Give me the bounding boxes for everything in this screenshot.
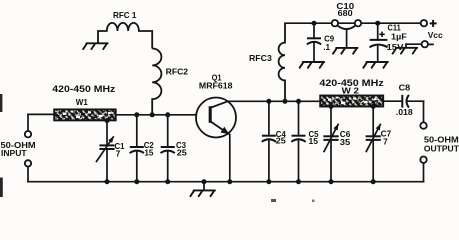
node ground rail / C2 xyxy=(134,179,139,184)
stripline W1 xyxy=(54,109,115,120)
capacitor C1 (variable, 7pF) xyxy=(96,136,115,162)
node C5 junction xyxy=(296,99,301,104)
transistor Q1 MRF618 xyxy=(196,98,236,138)
ground at Vcc - xyxy=(393,48,418,54)
node ground rail / C3 xyxy=(165,179,170,184)
svg-text:680: 680 xyxy=(338,9,353,18)
ground at C11 xyxy=(363,62,388,68)
svg-text:7: 7 xyxy=(383,138,388,147)
wire input to W1 xyxy=(28,113,55,115)
svg-text:INPUT: INPUT xyxy=(1,148,27,158)
stripline W2 xyxy=(320,96,383,107)
wire input top vertical xyxy=(27,114,29,130)
wire C6 bottom xyxy=(330,140,332,182)
wire output top vertical xyxy=(423,101,425,122)
wire C11 bottom xyxy=(377,47,379,63)
wire C4 bottom xyxy=(268,141,270,182)
node ground rail / emitter xyxy=(227,179,232,184)
node C3 junction xyxy=(165,112,170,117)
svg-text:.018: .018 xyxy=(396,108,413,117)
svg-text:25: 25 xyxy=(276,137,286,146)
ground at RFC1 xyxy=(83,43,108,49)
svg-text:C8: C8 xyxy=(399,84,411,93)
output terminal top xyxy=(420,122,426,128)
terminal Vcc - xyxy=(422,41,428,47)
wire base rail xyxy=(116,114,197,116)
wire C6 top xyxy=(330,106,332,136)
node C7 junction xyxy=(371,104,376,109)
svg-text:W1: W1 xyxy=(76,97,88,107)
wire C5 top xyxy=(298,101,300,135)
capacitor C3 (25pF) xyxy=(161,147,175,153)
wire Vcc- ground stub xyxy=(405,44,407,47)
wire C11 top xyxy=(377,23,379,40)
svg-text:.1: .1 xyxy=(323,43,330,52)
node RFC2 junction xyxy=(150,112,155,117)
terminal Vcc + xyxy=(421,20,427,26)
wire C3 top xyxy=(167,115,169,147)
wire C7 top xyxy=(372,106,374,136)
C11 plus sign xyxy=(379,32,384,37)
node C2 junction xyxy=(134,112,139,117)
node W1/C1 junction xyxy=(105,118,110,123)
wire ground stub xyxy=(203,182,205,191)
wire top rail right segment xyxy=(361,22,421,24)
node ground rail / ground stub xyxy=(202,179,207,184)
wire C1 bottom xyxy=(106,149,108,182)
svg-text:Vcc: Vcc xyxy=(428,30,443,40)
svg-text:25: 25 xyxy=(177,149,187,158)
svg-text:MRF618: MRF618 xyxy=(199,82,233,91)
node C9 junction xyxy=(312,21,317,26)
wire Vcc- to ground xyxy=(406,43,422,45)
svg-text:15: 15 xyxy=(309,137,319,146)
svg-text:15: 15 xyxy=(144,149,153,158)
wire input bottom vertical xyxy=(27,167,29,182)
wire C9 bottom xyxy=(313,43,315,62)
svg-text:RFC3: RFC3 xyxy=(249,53,272,63)
node ground rail / C4 xyxy=(266,179,271,184)
scan artifact left edge xyxy=(0,94,2,112)
ground at C9 xyxy=(300,62,325,68)
svg-text:7: 7 xyxy=(116,149,121,158)
capacitor C8 (.018uF) xyxy=(402,95,409,108)
node ground rail / C5 xyxy=(296,179,301,184)
capacitor C5 (15pF) xyxy=(291,136,305,142)
capacitor C4 (25pF) xyxy=(262,136,276,142)
node RFC3 junction xyxy=(283,99,288,104)
wire C8 to output xyxy=(407,100,423,102)
inductor RFC3 xyxy=(279,23,285,101)
wire C2 bottom xyxy=(136,152,138,182)
wire top rail middle segment xyxy=(338,22,355,24)
plus sign at Vcc xyxy=(430,20,437,27)
svg-text:420-450 MHz: 420-450 MHz xyxy=(52,83,115,94)
capacitor C10 (feedthrough, 680pF) xyxy=(332,20,338,26)
capacitor C6 (variable, 35pF) xyxy=(323,124,338,153)
wire ground rail xyxy=(28,181,424,183)
inductor RFC2 xyxy=(152,48,161,114)
capacitor C9 (.1uF) xyxy=(307,38,321,44)
wire output bottom vertical xyxy=(423,163,425,182)
wire C2 top xyxy=(136,115,138,147)
capacitor C2 (15pF) xyxy=(130,147,144,153)
svg-text:35: 35 xyxy=(340,138,351,147)
node C6 junction xyxy=(329,104,334,109)
svg-text:C11: C11 xyxy=(388,23,402,32)
wire C7 bottom xyxy=(372,140,374,182)
svg-text:1µF: 1µF xyxy=(391,33,407,42)
node C11 junction xyxy=(375,21,380,26)
svg-text:RFC2: RFC2 xyxy=(166,67,189,77)
input terminal J1 bottom xyxy=(25,160,31,166)
ground at C10 xyxy=(333,48,358,54)
wire collector rail xyxy=(228,100,321,102)
node ground rail / C6 xyxy=(329,179,334,184)
input terminal J1 top xyxy=(25,131,31,137)
minus sign at Vcc xyxy=(429,43,434,45)
wire emitter to ground rail xyxy=(229,135,231,182)
svg-text:RFC 1: RFC 1 xyxy=(113,10,137,20)
wire W2 to C8 xyxy=(384,100,403,102)
node ground rail / C7 xyxy=(371,179,376,184)
node C4 junction xyxy=(266,99,271,104)
capacitor C11 (electrolytic 1uF 15V) xyxy=(370,40,388,47)
wire C9 top xyxy=(313,23,315,38)
wire top rail left segment xyxy=(285,22,332,24)
ground at rail xyxy=(190,190,215,196)
capacitor C7 (variable, 7pF) xyxy=(366,124,381,153)
inductor RFC1 xyxy=(98,23,152,49)
svg-text:OUTPUT: OUTPUT xyxy=(424,143,459,153)
wire C5 bottom xyxy=(298,141,300,182)
wire C1 top xyxy=(106,121,108,146)
node ground rail / C1 xyxy=(105,179,110,184)
svg-text:W 2: W 2 xyxy=(342,86,360,96)
wire C4 top xyxy=(268,101,270,135)
output terminal bottom xyxy=(420,157,426,163)
wire C3 bottom xyxy=(167,152,169,182)
